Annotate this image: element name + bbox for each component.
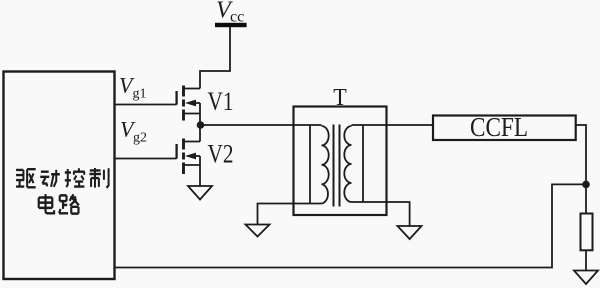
label 电路 (pseudo glyph strokes) — [39, 194, 79, 214]
ground under V2 — [188, 186, 212, 200]
wire secondary top to CCFL — [363, 124, 433, 126]
路 — [59, 194, 79, 213]
svg-text:g1: g1 — [133, 87, 147, 102]
label Vcc — [216, 0, 244, 26]
svg-text:CCFL: CCFL — [470, 112, 528, 142]
node half-bridge junction — [197, 121, 205, 129]
Vcc power bar — [215, 23, 247, 27]
label 驱动控制 (pseudo glyph strokes) — [16, 168, 109, 188]
transistor V2 — [177, 125, 200, 186]
label Vg2 — [120, 117, 147, 146]
node sense junction — [582, 181, 590, 189]
ground bottom right — [574, 271, 598, 285]
wire Vg2 gate lead — [115, 158, 177, 160]
svg-text:T: T — [333, 85, 347, 111]
transistor V1 — [177, 86, 200, 126]
wire resistor to ground — [585, 250, 587, 270]
svg-text:g2: g2 — [133, 131, 147, 146]
resistor current sense — [581, 214, 593, 251]
CCFL lamp box — [433, 116, 576, 141]
transformer secondary winding — [344, 125, 363, 202]
ground left below transformer — [246, 225, 270, 237]
制 — [89, 168, 108, 188]
transformer T box — [294, 107, 387, 216]
wire secondary bottom to ground — [363, 202, 410, 226]
电 — [39, 194, 54, 213]
驱 — [16, 170, 24, 187]
wire junction to transformer primary — [201, 124, 311, 126]
控 — [65, 168, 85, 187]
svg-text:cc: cc — [230, 9, 244, 26]
svg-text:V2: V2 — [208, 140, 234, 169]
label Vg1 — [119, 73, 147, 102]
wire CCFL to sense node — [576, 125, 586, 184]
svg-text:V1: V1 — [208, 87, 234, 116]
feedback wire to control box — [115, 184, 587, 267]
transformer core — [334, 125, 340, 207]
wire Vcc bar to V1 drain — [200, 27, 230, 89]
drive control circuit box — [4, 72, 115, 280]
wire Vg1 gate lead — [115, 104, 177, 106]
transformer primary winding — [310, 125, 329, 204]
wire node to resistor — [585, 184, 587, 213]
动 — [40, 170, 60, 187]
wire primary bottom to ground — [258, 204, 322, 225]
ground right below transformer — [398, 226, 422, 239]
